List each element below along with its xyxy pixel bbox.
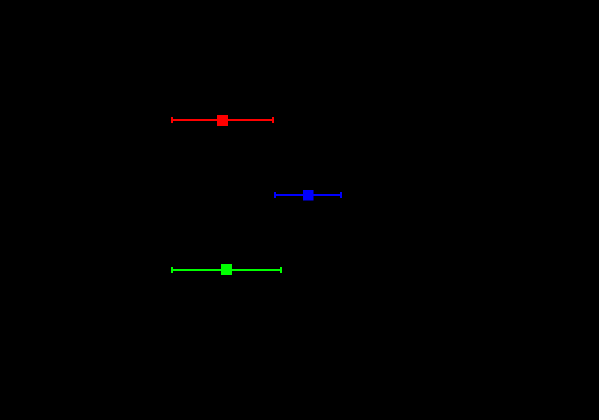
blue error bar right cap bbox=[340, 192, 342, 198]
red error bar right cap bbox=[272, 117, 274, 123]
red error bar left cap bbox=[171, 117, 173, 123]
blue error bar horizontal line bbox=[274, 194, 342, 196]
green square marker bbox=[221, 264, 232, 275]
green error bar horizontal line bbox=[171, 269, 282, 271]
green error bar left cap bbox=[171, 267, 173, 273]
green error bar right cap bbox=[280, 267, 282, 273]
blue square marker bbox=[303, 190, 314, 201]
red error bar horizontal line bbox=[171, 119, 274, 121]
red square marker bbox=[217, 115, 228, 126]
blue error bar left cap bbox=[274, 192, 276, 198]
